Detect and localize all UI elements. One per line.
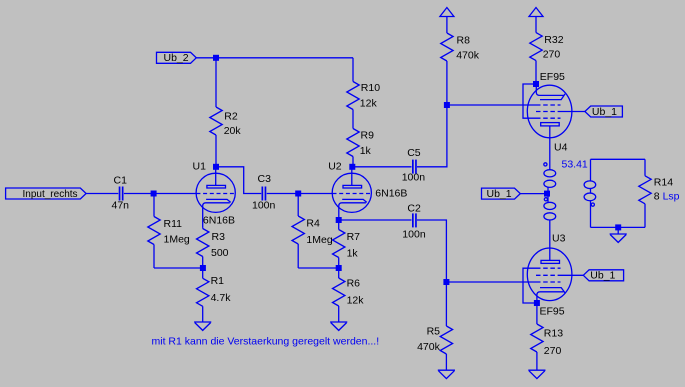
svg-text:U2: U2	[328, 161, 342, 173]
resistor R32 270	[530, 17, 564, 85]
wire U1 anode to C3	[216, 167, 261, 194]
svg-text:R5: R5	[427, 325, 441, 337]
annotation note	[152, 336, 380, 348]
svg-text:C3: C3	[258, 173, 272, 185]
junction U2 cathode	[336, 217, 342, 223]
svg-text:R32: R32	[544, 34, 563, 46]
net label Ub_2	[157, 52, 197, 64]
svg-text:470k: 470k	[456, 49, 480, 61]
suppressor bracket U3	[523, 268, 537, 303]
svg-text:6N16B: 6N16B	[375, 188, 407, 200]
wire junction to secondary ground	[617, 227, 619, 234]
svg-text:U1: U1	[193, 161, 207, 173]
wire Ub_1 to center tap	[520, 193, 547, 195]
wire C5 to R8 node	[417, 105, 447, 167]
wire C3 to U2 grid	[267, 193, 333, 195]
cathode U4	[540, 94, 565, 100]
svg-text:6N16B: 6N16B	[203, 215, 235, 227]
wire U2 anode to C5	[352, 166, 411, 168]
junction cathode divider node	[200, 265, 206, 271]
svg-text:100n: 100n	[252, 200, 276, 212]
tube U2 6N16B triode	[328, 161, 407, 221]
wire grid node to U3 g1	[446, 281, 536, 283]
svg-text:R8: R8	[457, 34, 471, 46]
svg-text:8: 8	[654, 191, 660, 203]
grid g1 U3	[536, 281, 561, 283]
junction U2 anode	[349, 164, 355, 170]
svg-text:4.7k: 4.7k	[211, 292, 232, 304]
svg-text:500: 500	[211, 247, 229, 259]
junction U4 cathode	[533, 81, 539, 87]
resistor R10 12k	[347, 58, 380, 129]
suppressor bracket U4	[523, 84, 536, 118]
ground under R1	[194, 322, 211, 330]
svg-text:EF95: EF95	[540, 71, 565, 83]
capacitor C1 47n	[112, 175, 130, 212]
cathode U3	[540, 288, 565, 293]
svg-text:R11: R11	[164, 218, 183, 230]
wire C1 to U1 grid	[124, 193, 196, 195]
transformer primary 53.41	[544, 126, 588, 261]
transformer secondary	[584, 159, 645, 227]
svg-text:20k: 20k	[224, 125, 242, 137]
svg-text:R13: R13	[544, 328, 563, 340]
junction input node	[151, 191, 157, 197]
grid g3 U3	[536, 267, 561, 269]
svg-text:R2: R2	[224, 111, 238, 123]
anode lead U2	[351, 167, 353, 186]
svg-text:R3: R3	[212, 231, 226, 243]
svg-text:47n: 47n	[112, 200, 130, 212]
resistor R2 20k	[210, 58, 242, 167]
svg-text:U3: U3	[552, 233, 566, 245]
svg-text:270: 270	[544, 345, 562, 357]
svg-text:mit R1 kann die Verstaerkung g: mit R1 kann die Verstaerkung geregelt we…	[152, 336, 380, 348]
grid g1 U4	[536, 104, 561, 106]
svg-text:R9: R9	[361, 130, 375, 142]
wire input label to C1	[86, 193, 118, 195]
svg-text:R6: R6	[347, 278, 361, 290]
junction secondary ground node	[615, 224, 621, 230]
svg-text:1k: 1k	[347, 248, 359, 260]
svg-text:53.41: 53.41	[562, 159, 588, 171]
svg-text:470k: 470k	[417, 341, 441, 353]
wire R11 to cathode divider node	[154, 267, 203, 269]
svg-text:1Meg: 1Meg	[306, 234, 332, 246]
svg-text:100n: 100n	[402, 171, 426, 183]
resistor R5 470k	[417, 282, 453, 370]
wire C2 to U3 grid node	[417, 220, 446, 282]
ground under R6	[330, 322, 347, 330]
svg-text:270: 270	[543, 49, 561, 61]
svg-text:R10: R10	[361, 82, 380, 94]
tube U4 EF95 pentode	[523, 71, 572, 154]
tube U3 EF95 pentode	[523, 233, 572, 318]
svg-text:1k: 1k	[360, 145, 372, 157]
resistor R9 1k	[347, 129, 374, 167]
resistor R11 1Meg	[148, 194, 190, 269]
resistor R3 500	[197, 227, 229, 268]
wire Ub_2 rail	[196, 57, 353, 59]
ground under R5	[438, 370, 455, 378]
svg-text:C2: C2	[407, 202, 421, 214]
net label Ub_1 at U3 screen	[583, 270, 623, 282]
junction R7/R6 node	[336, 265, 342, 271]
svg-text:100n: 100n	[402, 228, 426, 240]
resistor R1 4.7k	[197, 268, 232, 322]
svg-text:Ub_1: Ub_1	[590, 270, 615, 282]
resistor R13 270	[531, 303, 564, 370]
power arrow above R8	[440, 8, 454, 17]
svg-text:1Meg: 1Meg	[164, 234, 190, 246]
wire R4 to R7/R6 node	[298, 267, 338, 269]
resistor R4 1Meg	[292, 194, 333, 269]
svg-text:R4: R4	[306, 218, 320, 230]
resistor R6 12k	[333, 268, 365, 322]
svg-text:Ub_1: Ub_1	[487, 188, 512, 200]
capacitor C5 100n	[402, 147, 426, 183]
junction transformer center tap	[544, 191, 550, 197]
junction R4 node	[295, 191, 301, 197]
grid g2 U3	[536, 274, 561, 276]
svg-text:U4: U4	[554, 142, 568, 154]
junction U3 grid node	[443, 279, 449, 285]
svg-text:C1: C1	[114, 175, 128, 187]
tube U1 6N16B triode	[193, 161, 236, 228]
ground under R13	[528, 370, 545, 378]
grid g3 U4	[536, 117, 561, 119]
junction U3 cathode	[534, 300, 540, 306]
capacitor C3 100n	[252, 173, 276, 212]
wire U3 g2 to Ub_1	[561, 274, 584, 276]
svg-text:12k: 12k	[347, 295, 365, 307]
anode lead U1	[215, 167, 217, 186]
svg-text:R14: R14	[654, 177, 673, 189]
net label Ub_1 at center tap	[482, 188, 521, 200]
svg-text:12k: 12k	[360, 98, 378, 110]
svg-text:Ub_1: Ub_1	[592, 106, 617, 118]
resistor R8 470k	[441, 17, 480, 106]
power arrow above R32	[529, 8, 543, 17]
ground at secondary	[610, 234, 627, 242]
wire grid node to U4 g1	[447, 104, 536, 106]
svg-text:Input_rechts: Input_rechts	[23, 189, 78, 200]
svg-text:EF95: EF95	[540, 306, 565, 318]
net label Ub_1 at U4 screen	[585, 106, 623, 118]
wire U4 g2 to Ub_1	[561, 111, 585, 113]
anode plate U3	[541, 260, 560, 263]
wire U2 cathode to C2	[339, 219, 412, 221]
svg-text:C5: C5	[407, 147, 421, 159]
junction U4 grid node	[444, 102, 450, 108]
svg-text:R1: R1	[211, 275, 225, 287]
resistor R14 8 Lsp	[639, 159, 680, 227]
anode plate U4	[541, 123, 560, 126]
net label Input_rechts	[6, 188, 87, 200]
junction U1 anode	[213, 164, 219, 170]
grid g2 U4	[536, 111, 561, 113]
capacitor C2 100n	[402, 202, 426, 240]
svg-text:Lsp: Lsp	[663, 191, 680, 203]
svg-text:Ub_2: Ub_2	[164, 52, 189, 64]
junction Ub_2 / R2	[213, 55, 219, 61]
resistor R7 1k	[333, 220, 361, 268]
svg-text:R7: R7	[347, 231, 361, 243]
